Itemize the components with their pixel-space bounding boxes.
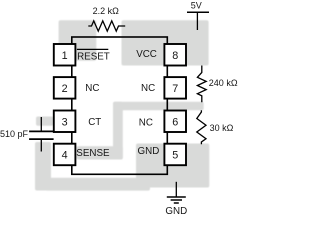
svg-text:SENSE: SENSE bbox=[76, 148, 110, 159]
svg-text:2: 2 bbox=[62, 83, 68, 95]
svg-text:3: 3 bbox=[62, 116, 68, 128]
svg-text:4: 4 bbox=[62, 150, 68, 162]
svg-text:240 kΩ: 240 kΩ bbox=[209, 78, 238, 88]
svg-text:NC: NC bbox=[85, 83, 99, 94]
svg-text:VCC: VCC bbox=[136, 49, 157, 60]
svg-text:2.2 kΩ: 2.2 kΩ bbox=[93, 6, 120, 16]
svg-text:RESET: RESET bbox=[77, 51, 110, 62]
svg-text:CT: CT bbox=[88, 117, 101, 128]
svg-text:6: 6 bbox=[172, 116, 178, 128]
svg-text:NC: NC bbox=[139, 117, 153, 128]
svg-text:NC: NC bbox=[141, 83, 155, 94]
svg-text:510 pF: 510 pF bbox=[0, 129, 29, 139]
svg-text:GND: GND bbox=[165, 206, 187, 217]
svg-text:30 kΩ: 30 kΩ bbox=[210, 123, 234, 133]
svg-text:5: 5 bbox=[172, 150, 178, 162]
svg-text:7: 7 bbox=[172, 83, 178, 95]
svg-text:1: 1 bbox=[62, 50, 68, 62]
svg-text:5V: 5V bbox=[191, 1, 202, 11]
svg-text:GND: GND bbox=[138, 146, 160, 157]
svg-text:8: 8 bbox=[172, 50, 178, 62]
